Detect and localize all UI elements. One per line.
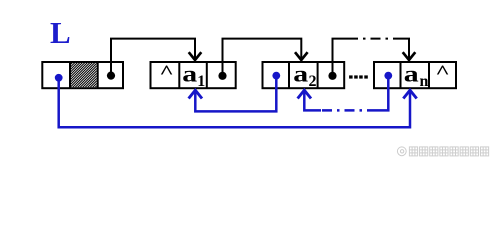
svg-text:2: 2 [309, 73, 317, 90]
node head divider 1 [69, 62, 71, 88]
arrowhead into an bottom [403, 90, 416, 98]
node a1 divider 2 [206, 62, 208, 88]
an prior pointer dot (blue) [384, 72, 392, 80]
svg-text:L: L [50, 15, 71, 50]
wire a2.prior to a1 (blue) [195, 76, 276, 112]
a2 next pointer dot [328, 72, 336, 80]
wire a1.next to a2 (black) [223, 39, 302, 76]
svg-text:1: 1 [197, 73, 205, 90]
node head divider 2 [97, 62, 99, 88]
node an divider 2 [428, 62, 430, 88]
arrowhead into a2 bottom [298, 90, 311, 98]
wire drop into an (black) [402, 39, 409, 59]
node a2 box [263, 62, 345, 88]
svg-text:a: a [404, 61, 419, 87]
node a2 divider 1 [288, 62, 290, 88]
wire head.next to a1 (black) [111, 39, 195, 76]
head prior pointer dot (blue) [55, 74, 63, 82]
svg-text:^: ^ [159, 61, 173, 82]
watermark @xitu juejin community [397, 147, 488, 156]
node a2 divider 2 [317, 62, 319, 88]
wire dash-dot omitted nodes (blue) [321, 109, 377, 112]
node an box [374, 62, 456, 88]
node head hatched data cell [71, 63, 97, 87]
svg-text:n: n [420, 73, 429, 90]
arrowhead into a2 top [295, 52, 308, 60]
wire head.prior to an (blue) [59, 78, 410, 127]
node head box [42, 62, 123, 88]
node a1 box [151, 62, 236, 88]
node a1 divider 1 [178, 62, 180, 88]
wire an.prior drops (blue solid) [377, 76, 388, 111]
a1 next pointer dot [218, 72, 226, 80]
head next pointer dot [107, 72, 115, 80]
arrowhead into a1 bottom [189, 90, 202, 98]
svg-text:a: a [182, 61, 197, 87]
a2 prior pointer dot (blue) [272, 72, 280, 80]
ellipsis dots between a2 and an [349, 75, 368, 78]
arrowhead into a1 top [189, 52, 202, 60]
wire rise into a2 (blue) [304, 92, 321, 111]
svg-text:^: ^ [435, 61, 449, 82]
wire dash-dot omitted nodes (black) [348, 38, 402, 40]
node an divider 1 [400, 62, 402, 88]
svg-text:a: a [293, 61, 308, 87]
arrowhead into an top [403, 52, 416, 60]
wire a2.next rises (black solid) [333, 39, 349, 76]
